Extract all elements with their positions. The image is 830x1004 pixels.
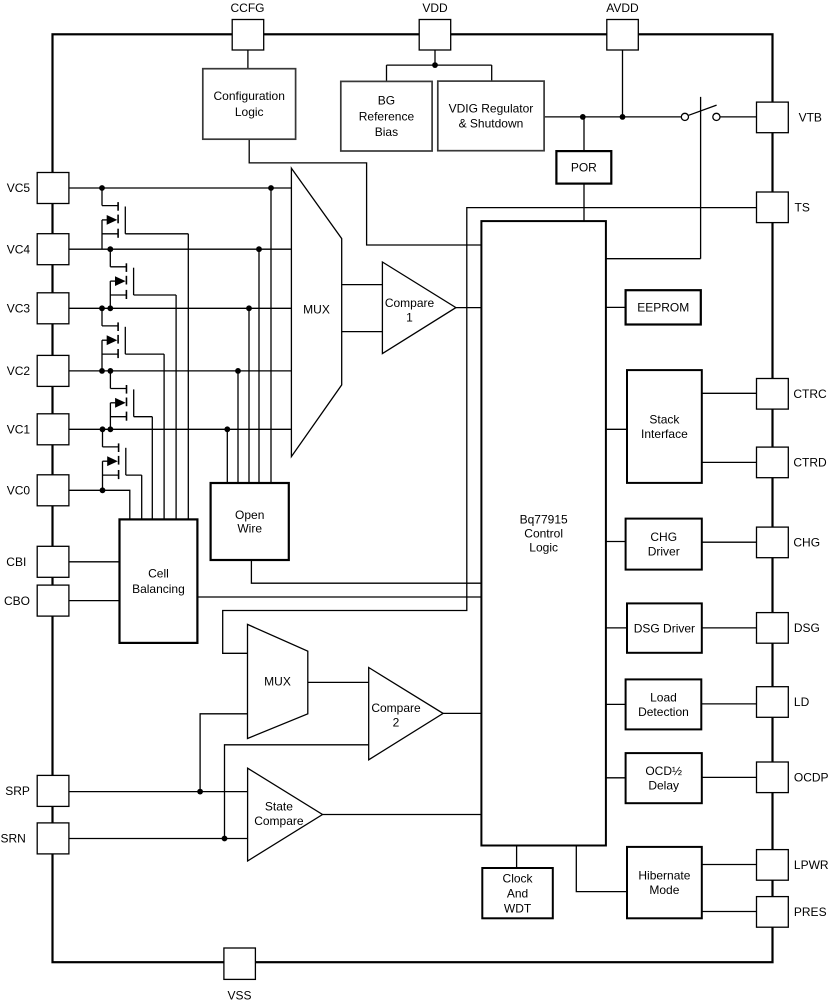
comparator State Compare — [248, 768, 323, 861]
pin CTRD — [757, 447, 828, 478]
svg-text:Delay: Delay — [648, 779, 679, 793]
svg-text:Interface: Interface — [641, 427, 688, 441]
svg-text:VC1: VC1 — [7, 423, 31, 437]
svg-text:And: And — [507, 886, 528, 900]
junction dot Q4 drain on VC2 — [108, 368, 114, 374]
svg-text:EEPROM: EEPROM — [637, 301, 689, 315]
wire VC0 to Cell Balancing — [69, 490, 130, 519]
wire VC5 to MUX 1 — [69, 187, 291, 189]
wire VC2 tap to Open Wire — [237, 371, 239, 483]
block Clock And WDT U13 — [482, 868, 553, 918]
wire VC2 to MUX 1 — [69, 370, 291, 372]
block Configuration Logic U2 — [203, 69, 296, 140]
junction dot Q3 drain on VC3 — [99, 305, 105, 311]
wire CHG Driver to CHG pin — [702, 541, 757, 543]
svg-text:2: 2 — [393, 716, 400, 730]
wire rail to POR — [583, 117, 585, 151]
svg-text:Bias: Bias — [375, 125, 398, 139]
junction dot Q4 source on VC1 — [108, 426, 114, 432]
block BG Reference Bias U3 — [341, 81, 432, 151]
wire net TS to MUX 2 — [223, 208, 757, 654]
svg-text:Configuration: Configuration — [214, 89, 285, 103]
wire net SRP to MUX 2 and State Compare — [69, 714, 248, 792]
wire CBI to Cell Balancing — [69, 561, 120, 563]
block Bq77915 Control Logic U1 — [481, 221, 606, 845]
svg-text:TS: TS — [795, 201, 810, 215]
pin VC4 — [7, 234, 69, 265]
pin LD — [757, 687, 810, 718]
junction dot Q5 source on VC0 — [100, 487, 106, 493]
svg-text:Clock: Clock — [503, 871, 534, 885]
svg-text:CTRD: CTRD — [793, 456, 827, 470]
wire VC1 to MUX 1 — [69, 428, 291, 430]
svg-text:Compare: Compare — [385, 296, 435, 310]
svg-text:BG: BG — [378, 94, 395, 108]
wire VDIG output to switch — [544, 116, 681, 118]
pin CBI — [6, 546, 69, 577]
junction dot Q2 source on VC3 — [107, 305, 113, 311]
svg-text:Detection: Detection — [638, 705, 689, 719]
svg-text:Wire: Wire — [237, 522, 262, 536]
svg-text:Open: Open — [235, 508, 264, 522]
transistor Q5 cell balance FET with gate wire — [103, 429, 142, 519]
wire CBO to Cell Balancing — [69, 600, 120, 602]
wire control logic to Hibernate Mode — [576, 846, 627, 892]
pin VSS — [224, 948, 256, 1003]
svg-text:VDIG Regulator: VDIG Regulator — [449, 102, 534, 116]
wire VC4 tap to Open Wire — [258, 249, 260, 483]
wire Stack Interface to CTRC pin — [702, 392, 757, 394]
pin VC1 — [7, 414, 69, 445]
svg-text:CCFG: CCFG — [231, 1, 265, 15]
block VDIG Regulator and Shutdown U4 — [438, 81, 544, 151]
block Load Detection U10 — [626, 679, 702, 729]
block Cell Balancing U15 — [120, 519, 198, 643]
svg-text:VC0: VC0 — [7, 484, 31, 498]
svg-text:1: 1 — [406, 311, 413, 325]
transistor Q4 cell balance FET with gate wire — [110, 371, 152, 520]
wire switch to VTB pin — [720, 116, 757, 118]
junction dot VC1 open-wire tap — [224, 426, 230, 432]
junction dot VC5 open-wire tap — [268, 185, 274, 191]
svg-text:PRES: PRES — [794, 905, 827, 919]
svg-text:VC5: VC5 — [7, 181, 31, 195]
svg-text:Compare: Compare — [254, 814, 304, 828]
svg-text:Reference: Reference — [359, 109, 415, 123]
svg-text:CHG: CHG — [650, 530, 677, 544]
switch S1 to VTB — [681, 105, 720, 120]
pin AVDD — [606, 1, 639, 50]
pin VDD — [419, 1, 451, 50]
svg-text:SRP: SRP — [5, 784, 30, 798]
junction dot Q5 drain on VC1 — [100, 426, 106, 432]
wire Cell Balancing to control logic — [197, 596, 481, 598]
mux MUX 1 — [291, 168, 341, 456]
svg-text:VC4: VC4 — [7, 242, 31, 256]
transistor Q3 cell balance FET with gate wire — [102, 308, 164, 519]
mux MUX 2 — [248, 624, 308, 738]
junction dot AVDD tap — [620, 114, 626, 120]
svg-text:VTB: VTB — [799, 111, 822, 125]
pin PRES — [757, 897, 827, 928]
junction dot VC3 open-wire tap — [246, 305, 252, 311]
svg-text:Bq77915: Bq77915 — [520, 512, 568, 526]
wire VC3 tap to Open Wire — [248, 308, 250, 483]
comparator Compare 1 — [382, 262, 456, 354]
wire net SRN to Compare 2 and State Compare — [69, 745, 369, 839]
wire Hibernate Mode to LPWR pin — [702, 864, 757, 866]
block Open Wire U14 — [211, 483, 289, 560]
transistor Q2 cell balance FET with gate wire — [110, 249, 176, 519]
wire control logic to OCD Delay — [606, 777, 626, 779]
wire POR to control logic — [583, 184, 585, 222]
svg-text:OCDP: OCDP — [794, 771, 829, 785]
block OCD half Delay U11 — [626, 753, 702, 803]
svg-text:LD: LD — [794, 695, 810, 709]
wire MUX 1 output B — [342, 331, 383, 333]
pin VC2 — [7, 355, 69, 386]
junction dot Q3 source on VC2 — [99, 368, 105, 374]
wire OCD Delay to OCDP pin — [702, 776, 757, 778]
svg-text:CHG: CHG — [793, 536, 820, 550]
wire net VDD to BG and VDIG — [387, 50, 492, 82]
svg-text:Compare: Compare — [371, 701, 421, 715]
block DSG Driver U9 — [627, 603, 702, 652]
wire MUX 1 output A — [342, 284, 383, 286]
wire Load Detection to LD pin — [701, 703, 756, 705]
comparator Compare 2 — [369, 668, 443, 760]
svg-text:Logic: Logic — [529, 541, 558, 555]
svg-text:DSG Driver: DSG Driver — [634, 621, 695, 635]
svg-text:DSG: DSG — [794, 621, 820, 635]
block Stack Interface U7 — [627, 370, 702, 483]
svg-text:POR: POR — [571, 161, 597, 175]
wire State Compare output to control logic — [323, 814, 482, 816]
pin DSG — [757, 613, 820, 644]
svg-text:Hibernate: Hibernate — [638, 869, 690, 883]
wire Hibernate Mode to PRES pin — [702, 911, 757, 913]
svg-text:Logic: Logic — [235, 105, 264, 119]
junction dot POR tap — [580, 114, 586, 120]
junction dot SRP branch — [197, 789, 203, 795]
svg-text:Mode: Mode — [649, 883, 679, 897]
pin LPWR — [757, 850, 829, 881]
svg-text:SRN: SRN — [1, 832, 26, 846]
svg-text:Driver: Driver — [648, 545, 680, 559]
junction dot VC2 open-wire tap — [235, 368, 241, 374]
wire VC5 tap to Open Wire — [270, 188, 272, 483]
block CHG Driver U8 — [626, 519, 702, 570]
wire control logic to Stack Interface — [606, 428, 627, 430]
svg-text:& Shutdown: & Shutdown — [459, 117, 524, 131]
wire AVDD down to VDIG output rail — [622, 50, 624, 117]
wire Stack Interface to CTRD pin — [702, 461, 757, 463]
wire MUX 2 output — [308, 681, 369, 683]
wire DSG Driver to DSG pin — [702, 627, 757, 629]
wire VC3 to MUX 1 — [69, 307, 291, 309]
wire control logic to DSG Driver — [606, 627, 627, 629]
svg-text:VSS: VSS — [227, 989, 251, 1003]
wire control logic to Load Detection — [606, 703, 626, 705]
pin VTB — [757, 102, 822, 133]
wire control logic to CHG Driver — [606, 541, 626, 543]
svg-text:CBI: CBI — [6, 555, 26, 569]
wire VC1 tap to Open Wire — [226, 429, 228, 483]
transistor Q1 cell balance FET with gate wire — [102, 188, 188, 519]
svg-text:VDD: VDD — [422, 1, 448, 15]
svg-text:MUX: MUX — [303, 303, 330, 317]
wire VC4 to MUX 1 — [69, 248, 291, 250]
pin CHG — [757, 527, 821, 558]
junction dot VC4 open-wire tap — [256, 246, 262, 252]
pin CTRC — [757, 379, 828, 410]
wire switch control from control logic — [606, 97, 701, 259]
wire CCFG to Configuration Logic — [247, 50, 249, 69]
wire Open Wire to control logic — [251, 560, 481, 583]
pin CBO — [4, 585, 69, 616]
junction dot Q2 drain on VC4 — [107, 246, 113, 252]
pin VC0 — [7, 475, 69, 506]
pin SRP — [5, 775, 69, 806]
pin SRN — [1, 823, 69, 854]
svg-text:Balancing: Balancing — [132, 582, 185, 596]
pin VC5 — [7, 173, 69, 204]
svg-text:Load: Load — [650, 690, 677, 704]
block EEPROM U6 — [626, 290, 701, 324]
block Hibernate Mode U12 — [627, 847, 702, 918]
pin OCDP — [757, 762, 829, 793]
svg-text:CTRC: CTRC — [793, 387, 827, 401]
svg-text:Stack: Stack — [649, 413, 680, 427]
wire control logic to EEPROM — [606, 306, 626, 308]
wire Compare 2 output to control logic — [443, 712, 481, 714]
pin VC3 — [7, 293, 69, 324]
pin CCFG — [231, 1, 265, 50]
block POR U5 — [556, 151, 611, 184]
wire Configuration Logic to control logic — [249, 139, 481, 245]
svg-text:VC3: VC3 — [7, 302, 31, 316]
pin TS — [757, 192, 810, 223]
svg-text:WDT: WDT — [504, 901, 532, 915]
svg-text:LPWR: LPWR — [794, 858, 829, 872]
svg-text:Control: Control — [524, 527, 563, 541]
svg-text:Cell: Cell — [148, 567, 169, 581]
svg-text:MUX: MUX — [264, 675, 291, 689]
svg-text:CBO: CBO — [4, 594, 30, 608]
svg-text:OCD½: OCD½ — [645, 764, 682, 778]
svg-text:VC2: VC2 — [7, 364, 31, 378]
wire Compare 1 output to control logic — [456, 307, 482, 309]
junction dot Q1 drain on VC5 — [99, 185, 105, 191]
wire control logic to Clock And WDT — [516, 846, 518, 869]
junction dot SRN branch — [222, 836, 228, 842]
junction dot VDD branch — [432, 62, 438, 68]
svg-text:State: State — [265, 800, 293, 814]
svg-text:AVDD: AVDD — [606, 1, 639, 15]
